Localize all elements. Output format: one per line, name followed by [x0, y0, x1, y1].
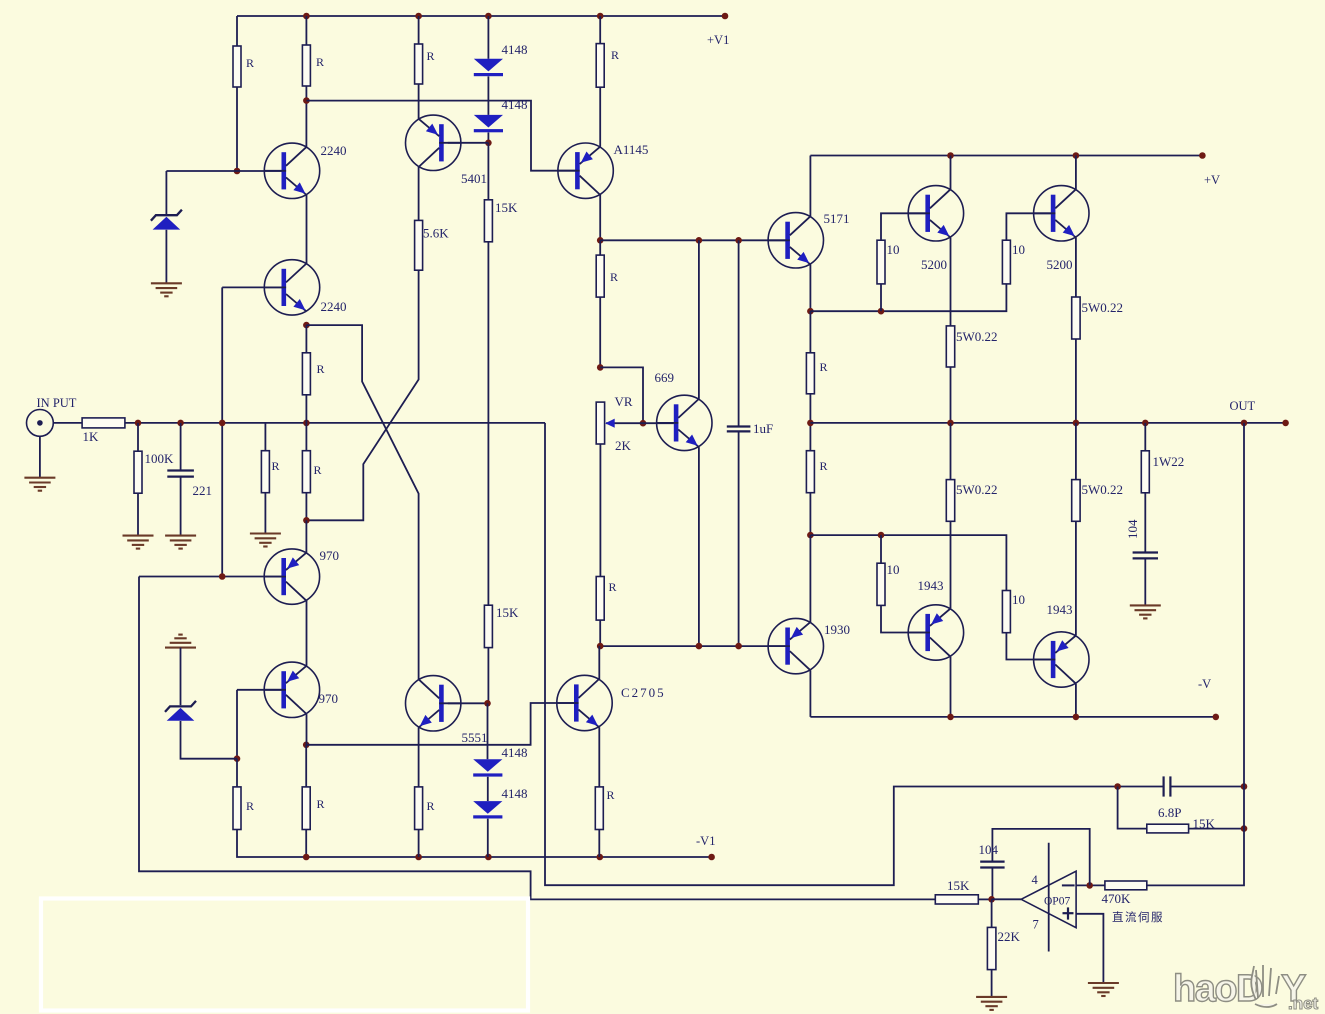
svg-text:1930: 1930	[824, 622, 850, 637]
capacitor C5 104	[980, 862, 1004, 868]
svg-text:10: 10	[1012, 242, 1025, 257]
resistor R30 15K	[1147, 824, 1189, 833]
wire 1uF bottom lead	[738, 432, 740, 646]
wire R2 top lead	[305, 16, 307, 45]
wire D2 bottom lead	[487, 133, 489, 143]
transistor Q7 5200	[1034, 186, 1089, 241]
wire input row	[125, 422, 545, 424]
wire R13 to OUT	[1075, 339, 1077, 423]
wire cross-coupling to A1145 base	[306, 101, 575, 171]
svg-text:5W0.22: 5W0.22	[1082, 482, 1124, 497]
resistor R29	[595, 787, 603, 830]
label R29 value	[607, 788, 615, 802]
ground under ZD1	[151, 283, 182, 296]
zener ZD2	[165, 701, 196, 721]
wire R8 top lead	[599, 240, 601, 255]
label R19 5W0.22	[1082, 482, 1124, 497]
transistor Q15 970	[264, 662, 319, 717]
wire 1W22 top lead	[1144, 423, 1146, 451]
label R31 470K	[1102, 891, 1132, 906]
label R1 value	[246, 56, 254, 70]
wire R1 top lead	[236, 16, 238, 46]
wire R25 bottom lead	[305, 493, 307, 521]
node Q15 emitter branch	[303, 742, 310, 749]
label R8 value	[610, 270, 618, 284]
svg-text:5200: 5200	[1047, 257, 1073, 272]
wire Q10 collector lead	[1075, 684, 1077, 717]
transistor Q10 1943	[1034, 632, 1089, 687]
wire VR wiper loop	[600, 367, 643, 423]
node servo summing	[988, 896, 995, 903]
wire 15K fb left lead	[1118, 787, 1147, 829]
potentiometer VR 2K body	[596, 402, 604, 444]
svg-text:-V1: -V1	[696, 834, 715, 848]
svg-text:2240: 2240	[321, 299, 347, 314]
svg-text:R: R	[820, 360, 828, 374]
node Q14 base	[219, 573, 226, 580]
svg-text:.net: .net	[1288, 994, 1319, 1013]
node 1uF top	[735, 237, 742, 244]
diode D2 4148	[474, 115, 503, 132]
wire 1uF top lead	[738, 240, 740, 426]
wire D4 bottom lead	[487, 819, 489, 857]
label Q8 1930	[824, 622, 850, 637]
svg-text:R: R	[316, 55, 324, 69]
label R4 5.6K	[423, 226, 449, 241]
resistor R2	[302, 45, 310, 86]
wire 22K bottom lead	[991, 970, 993, 997]
wire ZD2 top lead	[180, 648, 182, 706]
wire Q14 base row	[139, 576, 282, 578]
resistor R1	[233, 46, 241, 87]
label Q12 5551	[462, 730, 488, 745]
svg-text:4: 4	[1032, 873, 1039, 887]
label Q9 1943	[918, 578, 944, 593]
svg-text:4148: 4148	[502, 745, 528, 760]
wire 15K fb right lead	[1189, 828, 1244, 830]
label VR	[615, 394, 633, 409]
resistor R15 lower	[806, 451, 814, 493]
svg-text:6.8P: 6.8P	[1158, 805, 1181, 820]
label IN PUT	[37, 396, 77, 410]
wire OUT to servo column	[1147, 423, 1244, 886]
label R16 10	[887, 562, 900, 577]
resistor R3	[415, 44, 423, 84]
wire Q7 emitter lead	[1075, 238, 1077, 298]
label R5 15K	[495, 200, 518, 215]
wire 10R-3 leads	[881, 535, 925, 632]
label R10 10	[887, 242, 900, 257]
label Q14 970	[320, 548, 340, 563]
label D4 4148	[502, 786, 528, 801]
wire OUT rail	[810, 422, 1285, 424]
svg-text:5.6K: 5.6K	[423, 226, 449, 241]
wire integrator loop	[992, 829, 1089, 886]
label Q7 5200	[1047, 257, 1073, 272]
label R14 value	[820, 360, 828, 374]
wire 669 base lead	[643, 422, 674, 424]
ground under 22K	[976, 997, 1007, 1010]
wire 15K top lead	[487, 143, 489, 200]
label R22 100K	[145, 451, 175, 466]
svg-text:15K: 15K	[947, 878, 970, 893]
svg-text:5W0.22: 5W0.22	[956, 482, 998, 497]
op-amp U1 OP07	[1021, 871, 1076, 928]
label D3 4148	[502, 745, 528, 760]
label R9 value	[609, 580, 617, 594]
wire R12 to OUT	[950, 367, 952, 423]
svg-text:IN PUT: IN PUT	[37, 396, 77, 410]
label R25 value	[314, 463, 322, 477]
wire 10R-4 bottom lead	[1006, 633, 1050, 660]
wire R23 bottom lead	[264, 493, 266, 534]
wire D1-D2 lead	[487, 76, 489, 115]
wire lower bias row	[600, 645, 785, 647]
svg-text:15K: 15K	[496, 605, 519, 620]
label C3 221	[193, 483, 213, 498]
wire to zener ZD1	[166, 170, 282, 172]
resistor R28	[415, 787, 423, 830]
resistor R11 10	[1002, 240, 1010, 284]
transistor Q12 5551	[406, 676, 461, 731]
ground under 100K	[123, 536, 154, 549]
svg-text:5551: 5551	[462, 730, 488, 745]
label VR 2K	[615, 438, 632, 453]
wire R19 leads	[1075, 423, 1077, 635]
resistor R8	[596, 255, 604, 297]
svg-text:104: 104	[979, 842, 999, 857]
node lower bias branch	[807, 532, 814, 539]
svg-text:221: 221	[193, 483, 213, 498]
wire to Q14 emitter	[305, 520, 307, 553]
wire 100K bottom lead	[137, 493, 139, 535]
transistor Q8 1930	[768, 618, 823, 673]
svg-text:15K: 15K	[495, 200, 518, 215]
label Q6 5200	[921, 257, 947, 272]
wire R6 bottom lead	[487, 648, 489, 704]
wire zener ZD1 bottom lead	[165, 230, 167, 283]
svg-text:C2705: C2705	[621, 685, 666, 700]
wire 970 emitter row to C2705 base	[306, 703, 574, 745]
wire Q4 collector lead	[599, 195, 601, 241]
transistor Q2 2240	[264, 260, 319, 315]
node feedback left	[1114, 783, 1121, 790]
wire -V rail	[810, 716, 1215, 718]
svg-text:470K: 470K	[1102, 891, 1132, 906]
svg-text:970: 970	[320, 548, 340, 563]
resistor R23	[261, 451, 269, 493]
diode D3 4148	[473, 759, 502, 776]
transistor Q4 A1145	[558, 143, 613, 198]
wire cross A (Q2 emitter to Q12 collector)	[306, 325, 418, 679]
svg-text:7: 7	[1033, 918, 1039, 932]
wire cross B (5.6K to lower node)	[306, 270, 418, 520]
wire Q15 base lead	[237, 690, 282, 759]
svg-text:1K: 1K	[83, 429, 100, 444]
svg-text:-V: -V	[1198, 677, 1211, 691]
wire 10R-2 top lead	[1006, 213, 1050, 240]
svg-text:5401: 5401	[461, 171, 487, 186]
diode D4 4148	[473, 801, 502, 818]
label Q5 5171	[824, 211, 850, 226]
label OUT	[1230, 399, 1256, 413]
ground under R23	[250, 534, 281, 547]
resistor R13 5W0.22	[1072, 297, 1080, 339]
capacitor C4 6.8P	[1164, 776, 1171, 796]
transistor Q13 669	[657, 395, 712, 450]
resistor R22 100K	[134, 451, 142, 493]
transistor Q1 2240	[264, 143, 319, 198]
label U1 pin 4	[1032, 873, 1039, 887]
wire R24 bottom lead	[305, 395, 307, 451]
node VR top	[597, 364, 604, 371]
label R7 value	[611, 48, 619, 62]
resistor R24	[302, 353, 310, 395]
node Q5 emitter branch	[807, 308, 814, 315]
label R15 value	[820, 459, 828, 473]
wire VR wiper to body	[606, 422, 643, 424]
svg-text:669: 669	[655, 370, 675, 385]
wire 104 bottom lead	[1144, 558, 1146, 605]
wire Q13 emitter lead	[698, 447, 700, 646]
label Q10 1943	[1047, 602, 1073, 617]
svg-text:1943: 1943	[918, 578, 944, 593]
svg-text:R: R	[610, 270, 618, 284]
svg-text:R: R	[317, 797, 325, 811]
frame white box	[41, 899, 528, 1011]
watermark haoDIY.net	[1173, 965, 1319, 1013]
resistor R9	[596, 577, 604, 621]
wire D3-D4 lead	[487, 777, 489, 801]
label R32 15K	[947, 878, 970, 893]
label R2 value	[316, 55, 324, 69]
wire +V1 top rail	[237, 15, 725, 17]
svg-text:4148: 4148	[502, 786, 528, 801]
label Q15 970	[319, 691, 339, 706]
wire Q6 emitter lead	[950, 238, 952, 326]
wire 100K top lead	[137, 423, 139, 451]
wire Q3 base to node	[448, 142, 489, 144]
wire 6.8P right lead	[1170, 786, 1244, 788]
wire VAS row to Q5 base	[600, 239, 785, 241]
label Q11 C2705	[621, 685, 666, 700]
label R20 1W22	[1153, 454, 1185, 469]
wire Q5 collector to +V	[809, 156, 811, 217]
label Q3 5401	[461, 171, 487, 186]
wire Q12 base lead	[448, 702, 488, 704]
resistor R16 10	[877, 563, 885, 605]
node -V1 rail dots	[303, 854, 715, 861]
node lower bias left	[597, 643, 604, 650]
wire R18 leads	[950, 423, 952, 608]
wire zener ZD1 top lead	[165, 171, 167, 214]
svg-text:5W0.22: 5W0.22	[956, 329, 998, 344]
wire R26 leads	[237, 759, 712, 857]
node +V dots	[947, 152, 1205, 159]
resistor R7	[596, 44, 604, 88]
wire dc servo return	[139, 577, 935, 900]
svg-text:970: 970	[319, 691, 339, 706]
wire R1 bottom lead	[236, 87, 238, 171]
resistor R18 5W0.22	[946, 480, 954, 522]
svg-text:R: R	[272, 459, 280, 473]
svg-text:R: R	[609, 580, 617, 594]
label C4 6.8P	[1158, 805, 1181, 820]
node 10R-3 top	[878, 532, 885, 539]
wire D3 top lead	[487, 703, 489, 759]
wire R2 bottom lead	[305, 86, 307, 147]
zener ZD1	[151, 210, 182, 230]
wire VR bottom lead	[599, 444, 601, 577]
svg-text:R: R	[246, 799, 254, 813]
label C5 104	[979, 842, 999, 857]
resistor R17 10	[1002, 591, 1010, 633]
label R24 value	[317, 362, 325, 376]
node base Q1 / zener ZD1	[234, 168, 241, 175]
label -V	[1198, 677, 1211, 691]
resistor R5 15K	[484, 200, 492, 242]
svg-text:A1145: A1145	[614, 142, 649, 157]
wire 15K servo right lead	[978, 898, 991, 900]
wire Q6 collector lead	[950, 156, 952, 190]
node Q3 collector / 15K	[485, 140, 492, 147]
transistor Q14 970	[264, 549, 319, 604]
node 10R-1 bottom	[878, 308, 885, 315]
wire 22K top lead	[991, 899, 993, 927]
transistor Q9 1943	[908, 605, 963, 660]
svg-text:1uF: 1uF	[753, 421, 773, 436]
svg-text:10: 10	[887, 562, 900, 577]
wire Q12 emitter lead	[418, 728, 420, 787]
node VR wiper	[640, 420, 647, 427]
wire 15K long lead down	[487, 242, 489, 605]
diode D1 4148	[474, 59, 503, 76]
node feedback right	[1241, 783, 1248, 790]
wire Q3 collector lead	[418, 167, 420, 221]
resistor R27	[302, 787, 310, 830]
node Q2 emitter	[303, 322, 310, 329]
resistor R19 5W0.22	[1072, 480, 1080, 522]
label R26 value	[246, 799, 254, 813]
wire lower bias row2	[810, 535, 1006, 590]
label Q1 2240	[321, 143, 347, 158]
node Q13 emitter join	[696, 643, 703, 650]
label R13 5W0.22	[1082, 300, 1124, 315]
wire R9 bottom lead	[599, 620, 601, 646]
svg-text:VR: VR	[615, 394, 633, 409]
wire Q8 emitter lead	[809, 535, 811, 622]
label R11 10	[1012, 242, 1025, 257]
svg-text:OUT: OUT	[1230, 399, 1256, 413]
resistor R31 470K	[1105, 881, 1147, 890]
wire 10R-1 leads	[881, 213, 925, 311]
resistor R32 15K	[935, 895, 978, 904]
wire ZD2 bottom lead	[181, 721, 238, 759]
wire R7 top lead	[599, 16, 601, 44]
wire 1W22 to 104	[1144, 493, 1146, 553]
svg-text:haoD: haoD	[1173, 968, 1262, 1010]
ground noninverting input	[1088, 983, 1119, 996]
wire Q11 collector lead	[598, 646, 600, 679]
resistor R21 1K	[82, 418, 125, 428]
node input row dots	[135, 420, 310, 427]
wire Q8 collector to -V	[809, 670, 811, 717]
label +V	[1204, 173, 1220, 187]
label C2 104	[1125, 519, 1140, 539]
wire Q5 emitter lead	[809, 265, 811, 312]
capacitor C2 104	[1133, 553, 1158, 559]
ground above ZD2	[165, 635, 196, 648]
label R23 value	[272, 459, 280, 473]
resistor R33 22K	[987, 927, 996, 969]
node driver out	[807, 420, 814, 427]
label Q4 A1145	[614, 142, 649, 157]
label Q2 2240	[321, 299, 347, 314]
resistor R12 5W0.22	[946, 326, 954, 367]
svg-text:4148: 4148	[502, 42, 528, 57]
label U1 OP07	[1044, 896, 1070, 908]
node fb resistor join	[1241, 825, 1248, 832]
svg-text:22K: 22K	[998, 929, 1021, 944]
node zener ZD2 join	[234, 755, 241, 762]
wire jack ground lead	[39, 436, 41, 477]
resistor R20 1W22	[1141, 451, 1149, 493]
wire Q1 emitter to Q2 collector	[306, 195, 308, 263]
label C1 1uF	[753, 421, 773, 436]
connector input jack	[27, 410, 54, 437]
label R30 15K	[1193, 816, 1216, 831]
label DC servo text	[1112, 910, 1164, 924]
transistor Q11 C2705	[557, 675, 612, 730]
ground input jack	[24, 478, 55, 491]
wire D1 top lead	[487, 16, 489, 59]
node OUT dots	[947, 420, 1289, 427]
svg-text:R: R	[607, 788, 615, 802]
svg-text:5200: 5200	[921, 257, 947, 272]
ground under C3	[165, 536, 196, 549]
wire R8 to VR node	[599, 297, 601, 367]
wire R3 top lead	[418, 16, 420, 44]
svg-text:R: R	[246, 56, 254, 70]
svg-text:R: R	[314, 463, 322, 477]
wire R15 bottom lead	[809, 493, 811, 535]
svg-text:+V: +V	[1204, 173, 1220, 187]
node Q1 collector branch	[303, 97, 310, 104]
wire Q9 collector lead	[950, 657, 952, 717]
label R27 value	[317, 797, 325, 811]
svg-text:4148: 4148	[502, 97, 528, 112]
transistor Q3 5401	[406, 115, 461, 170]
label R18 5W0.22	[956, 482, 998, 497]
label D2 4148	[502, 97, 528, 112]
svg-text:R: R	[611, 48, 619, 62]
resistor R25	[302, 451, 310, 493]
label R28 value	[427, 799, 435, 813]
wire Q14 collector to Q15 emitter	[306, 601, 308, 666]
svg-text:10: 10	[1012, 592, 1025, 607]
svg-text:直流伺服: 直流伺服	[1112, 910, 1164, 924]
node Q12 base / diode chain	[484, 700, 491, 707]
wire R14 leads	[809, 311, 811, 451]
label R17 10	[1012, 592, 1025, 607]
node op-amp inverting input	[1086, 882, 1093, 889]
wire Q2e to R24	[305, 325, 307, 353]
label U1 pin 7	[1033, 918, 1039, 932]
svg-text:R: R	[820, 459, 828, 473]
arrow VR wiper	[605, 419, 615, 428]
wire Q7 collector lead	[1075, 156, 1077, 190]
wire Q13 collector lead	[698, 240, 700, 399]
